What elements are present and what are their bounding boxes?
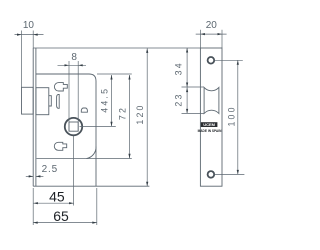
bolt body bbox=[36, 88, 49, 115]
arrows dim 44.5 bbox=[110, 75, 112, 80]
dim 100 line bbox=[237, 60, 239, 174]
follower square bbox=[69, 122, 78, 131]
upper screw hole bbox=[208, 57, 215, 64]
svg-text:UCEM: UCEM bbox=[203, 122, 215, 127]
svg-text:45: 45 bbox=[49, 188, 65, 204]
dim 10 lines bbox=[15, 34, 44, 36]
arrowheads bbox=[17, 33, 239, 224]
corner arc bbox=[87, 147, 97, 159]
right plate (front view) bbox=[200, 48, 222, 186]
svg-text:8: 8 bbox=[71, 52, 77, 63]
bolt step bbox=[49, 96, 52, 106]
arrows dim 8 bbox=[65, 64, 70, 66]
lock case outline bbox=[36, 74, 96, 186]
arrows dim 45 bbox=[33, 202, 38, 204]
svg-text:10: 10 bbox=[23, 20, 35, 31]
svg-text:MADE IN SPAIN: MADE IN SPAIN bbox=[198, 129, 223, 133]
dim 120 line bbox=[146, 48, 148, 186]
dim 65 line bbox=[33, 222, 97, 224]
svg-text:72: 72 bbox=[118, 106, 128, 120]
svg-text:120: 120 bbox=[135, 103, 145, 124]
spindle center extension bbox=[73, 136, 75, 206]
dim 44.5 line bbox=[111, 75, 113, 126]
dim 34-23 line bbox=[186, 48, 188, 113]
case bottom edge + extension bbox=[33, 185, 149, 187]
arrows dim 65 bbox=[33, 222, 38, 224]
lever bbox=[57, 95, 60, 109]
dim 8 lines bbox=[58, 64, 87, 66]
dim 45 line bbox=[33, 202, 73, 204]
svg-text:2.5: 2.5 bbox=[42, 164, 58, 175]
arrows dim 20 bbox=[200, 33, 205, 35]
arrows dim 100 bbox=[237, 60, 239, 65]
arrows dim 23 bbox=[186, 88, 188, 93]
upper hole center line bbox=[215, 59, 243, 61]
dimension lines bbox=[15, 30, 238, 225]
svg-text:100: 100 bbox=[226, 105, 236, 126]
roller bolt bbox=[204, 87, 219, 113]
72 bottom extension bbox=[37, 158, 132, 160]
brand logo block bbox=[198, 122, 223, 133]
arrows dim 2.5 bbox=[29, 175, 34, 177]
follower circle bbox=[65, 118, 82, 135]
top slot bbox=[54, 83, 67, 91]
dim 72 line bbox=[129, 75, 131, 158]
svg-text:34: 34 bbox=[174, 61, 184, 75]
svg-text:44.5: 44.5 bbox=[99, 87, 109, 113]
outer knob block bbox=[22, 87, 34, 114]
D-hole bbox=[81, 108, 87, 112]
svg-text:23: 23 bbox=[174, 92, 184, 106]
dimension texts bbox=[23, 20, 237, 224]
lower screw hole bbox=[208, 171, 215, 178]
follower center extension bbox=[80, 125, 116, 127]
arrows dim 72 bbox=[128, 75, 130, 80]
bottom slot bbox=[54, 142, 66, 150]
svg-text:20: 20 bbox=[206, 20, 218, 31]
faceplate top extension line bbox=[33, 47, 200, 49]
arrows dim 10 bbox=[17, 34, 22, 36]
case top extension bbox=[97, 73, 132, 75]
lower hole center line bbox=[215, 173, 245, 175]
dim 20 lines bbox=[196, 33, 227, 35]
dim 2.5 lines bbox=[26, 175, 33, 177]
arrows dim 120 bbox=[146, 48, 148, 53]
arrows dim 34 bbox=[186, 48, 188, 53]
faceplate strip (side view) bbox=[33, 48, 36, 186]
svg-text:65: 65 bbox=[53, 208, 69, 224]
